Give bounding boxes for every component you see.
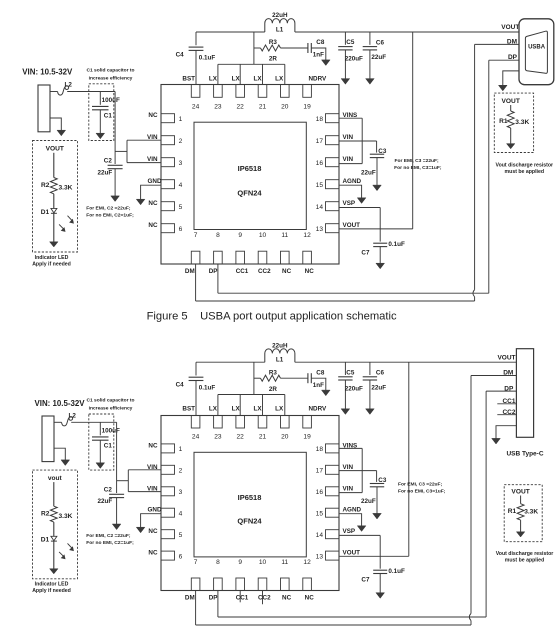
- svg-text:DM: DM: [503, 370, 513, 377]
- pin 19 box: [303, 85, 312, 98]
- capacitor C4: [195, 362, 197, 375]
- wire USB Type-C ground stub: [496, 426, 516, 439]
- svg-text:VIN: VIN: [343, 156, 354, 163]
- wire VIN pin 16: [339, 163, 362, 165]
- svg-text:16: 16: [316, 160, 324, 167]
- pin 13 box: [326, 224, 340, 233]
- svg-text:2R: 2R: [269, 56, 278, 63]
- svg-text:CC1: CC1: [236, 594, 249, 601]
- wire VOUT to R2: [53, 482, 55, 506]
- svg-text:2: 2: [179, 468, 183, 475]
- pin 1 box: [161, 114, 175, 123]
- svg-text:C6: C6: [376, 370, 385, 377]
- wire VOUT to R1: [510, 105, 512, 111]
- svg-text:C3: C3: [378, 148, 387, 155]
- svg-text:DP: DP: [209, 268, 218, 275]
- svg-text:C7: C7: [361, 250, 370, 257]
- svg-text:NC: NC: [148, 528, 158, 535]
- ground C2: [111, 196, 120, 202]
- svg-text:22uH: 22uH: [272, 12, 288, 19]
- wire J1 ground stub: [50, 118, 61, 131]
- LED D1: [51, 536, 57, 540]
- wire R1 to arrow: [510, 128, 512, 144]
- svg-text:3: 3: [179, 489, 183, 496]
- svg-text:C1: C1: [104, 112, 113, 119]
- svg-text:NC: NC: [148, 550, 158, 557]
- wire LX pin 23 drop: [217, 395, 219, 416]
- ground AGND: [357, 198, 366, 204]
- svg-text:R1: R1: [508, 508, 517, 515]
- pin 23 box: [214, 416, 223, 429]
- svg-text:AGND: AGND: [343, 178, 362, 185]
- wire VIN from J1 to L2: [54, 421, 62, 423]
- connector USB Type-C shell: [516, 349, 533, 438]
- resistor R3: [254, 47, 261, 49]
- svg-text:NDRV: NDRV: [309, 406, 328, 413]
- svg-text:13: 13: [316, 226, 324, 233]
- wire CC1 pin 9 stub: [239, 591, 241, 603]
- LED arrow 1: [68, 216, 74, 222]
- wire VIN bracket vertical: [126, 140, 128, 162]
- wire USBA ground stub: [503, 71, 519, 86]
- ground J1: [61, 460, 70, 466]
- svg-text:increase efficiency: increase efficiency: [89, 75, 133, 81]
- svg-text:L2: L2: [65, 81, 73, 88]
- pin 21 box: [258, 85, 267, 98]
- svg-text:VIN: VIN: [147, 485, 158, 492]
- svg-text:AGND: AGND: [343, 507, 362, 514]
- svg-text:BST: BST: [182, 75, 195, 82]
- pin 18 box: [326, 114, 340, 123]
- pin 23 box: [214, 85, 223, 98]
- svg-text:Indicator LED: Indicator LED: [35, 255, 69, 261]
- svg-text:C2: C2: [104, 486, 113, 493]
- svg-text:18: 18: [316, 446, 324, 453]
- svg-text:R1: R1: [499, 118, 508, 125]
- pin 3 box: [161, 487, 175, 496]
- svg-text:NC: NC: [148, 112, 158, 119]
- connector J1 input: [38, 85, 50, 132]
- dashed box C1: [89, 84, 114, 141]
- svg-text:must be applied: must be applied: [505, 558, 545, 564]
- capacitor C2: [109, 493, 124, 495]
- svg-text:9: 9: [238, 559, 242, 566]
- svg-text:8: 8: [216, 559, 220, 566]
- wire VOUT rail drop: [412, 32, 414, 229]
- wire DM horizontal: [196, 624, 471, 626]
- wire DP horizontal: [218, 292, 489, 294]
- capacitor C3: [370, 483, 384, 485]
- svg-text:23: 23: [214, 103, 222, 110]
- pin 22 box: [236, 416, 245, 429]
- pin 2 box: [161, 136, 175, 145]
- pin 20 box: [281, 416, 290, 429]
- wire to pin 3 VIN: [127, 162, 161, 164]
- capacitor C6: [369, 32, 371, 45]
- wire VINS bracket: [361, 118, 363, 163]
- wire D1 to ground: [53, 213, 55, 242]
- svg-text:VOUT: VOUT: [46, 146, 64, 153]
- wire AGND pin 15: [339, 514, 362, 527]
- wire VOUT rail drop: [408, 362, 410, 556]
- svg-text:D1: D1: [41, 209, 50, 216]
- svg-text:2R: 2R: [269, 386, 278, 393]
- wire DP horizontal: [218, 616, 486, 618]
- wire LX pin 20 drop: [284, 395, 286, 416]
- svg-text:NC: NC: [305, 268, 315, 275]
- svg-text:22uF: 22uF: [371, 384, 386, 391]
- svg-text:13: 13: [316, 553, 324, 560]
- ground C6: [366, 409, 375, 415]
- wire DP to USBA: [489, 59, 519, 61]
- svg-text:12: 12: [303, 232, 311, 239]
- svg-text:For EMI, C3 =22uF;: For EMI, C3 =22uF;: [398, 481, 443, 487]
- svg-text:22uH: 22uH: [272, 342, 288, 349]
- wire VINS pin 18: [339, 117, 362, 119]
- svg-text:7: 7: [194, 232, 198, 239]
- svg-text:CC1: CC1: [236, 268, 249, 275]
- capacitor C5: [344, 362, 346, 375]
- pin 2 box: [161, 465, 175, 474]
- wire R2 to D1: [53, 194, 55, 209]
- pin 11 box: [281, 578, 290, 591]
- svg-text:100uF: 100uF: [102, 97, 120, 104]
- svg-text:NC: NC: [148, 200, 158, 207]
- svg-text:L1: L1: [276, 357, 284, 364]
- svg-text:increase efficiency: increase efficiency: [89, 406, 133, 412]
- svg-text:LX: LX: [253, 406, 262, 413]
- svg-text:9: 9: [238, 232, 242, 239]
- svg-text:Vout discharge resistor: Vout discharge resistor: [496, 551, 554, 557]
- wire DM horizontal: [196, 300, 475, 302]
- svg-text:R2: R2: [41, 182, 50, 189]
- dashed box indicator LED: [33, 141, 78, 253]
- svg-text:22uF: 22uF: [98, 498, 113, 505]
- pin 13 box: [326, 551, 340, 560]
- capacitor C1: [99, 92, 101, 105]
- wire CC2 pin 10 stub: [262, 591, 264, 605]
- wire VOUT to R1: [520, 496, 522, 504]
- svg-text:C4: C4: [176, 51, 185, 58]
- capacitor C1: [99, 422, 101, 435]
- resistor R2: [50, 178, 57, 194]
- wire VSP pin 14: [339, 207, 380, 209]
- svg-text:vout: vout: [48, 475, 63, 482]
- wire VIN to C3: [376, 471, 378, 482]
- capacitor C2: [108, 164, 123, 166]
- ground USBA: [499, 85, 508, 91]
- resistor R3: [254, 377, 261, 379]
- wire DM to USB Type-C: [471, 375, 516, 377]
- ground USB Type-C: [492, 438, 501, 444]
- svg-text:NC: NC: [148, 442, 158, 449]
- svg-text:1: 1: [179, 116, 183, 123]
- wire R3 to C8: [281, 377, 308, 379]
- svg-text:18: 18: [316, 116, 324, 123]
- svg-text:NC: NC: [282, 594, 292, 601]
- wire VOUT rail: [295, 31, 519, 33]
- capacitor C5: [344, 32, 346, 45]
- wire DP to USB Type-C: [486, 390, 516, 392]
- IC U1 inner body: [194, 452, 306, 557]
- svg-text:C5: C5: [346, 39, 355, 46]
- svg-text:LX: LX: [253, 75, 262, 82]
- inductor L1: [265, 349, 295, 362]
- svg-text:VSP: VSP: [343, 200, 356, 207]
- wire VINS pin 18: [339, 447, 362, 449]
- svg-text:22uF: 22uF: [371, 54, 386, 61]
- svg-text:QFN24: QFN24: [237, 517, 262, 526]
- svg-text:14: 14: [316, 532, 324, 539]
- svg-text:16: 16: [316, 489, 324, 496]
- pin 1 box: [161, 444, 175, 453]
- pin 24 box: [191, 416, 200, 429]
- svg-text:22uF: 22uF: [98, 169, 113, 176]
- svg-text:1: 1: [179, 446, 183, 453]
- wire LX bus: [218, 63, 285, 65]
- wire DP pin 8 drop: [217, 591, 219, 618]
- ground C7: [376, 593, 385, 599]
- svg-text:1nF: 1nF: [313, 52, 324, 59]
- inductor L2: [62, 417, 73, 426]
- svg-text:22: 22: [237, 434, 245, 441]
- svg-text:VIN: VIN: [343, 464, 354, 471]
- pin 10 box: [258, 578, 267, 591]
- svg-text:DM: DM: [507, 38, 517, 45]
- svg-text:C1 solid capacitor to: C1 solid capacitor to: [86, 398, 134, 404]
- wire C8 to ground: [312, 378, 326, 390]
- svg-text:220uF: 220uF: [345, 55, 363, 62]
- svg-text:8: 8: [216, 232, 220, 239]
- svg-text:VSP: VSP: [343, 528, 356, 535]
- dashed box R1 discharge: [494, 93, 533, 152]
- capacitor C3: [370, 153, 384, 155]
- svg-text:C3: C3: [378, 477, 387, 484]
- wire VOUT to R2: [53, 153, 55, 178]
- pin 4 box: [161, 180, 175, 189]
- wire GND pin 4: [141, 185, 161, 199]
- svg-text:USBA: USBA: [528, 45, 546, 51]
- connector USBA shell: [519, 19, 554, 85]
- wire LX to R3: [253, 362, 255, 394]
- svg-text:C7: C7: [361, 576, 370, 583]
- wire VIN node vertical: [114, 92, 116, 165]
- arrow R1 return: [516, 532, 524, 537]
- svg-text:For no EMI, C3=1uF;: For no EMI, C3=1uF;: [398, 489, 446, 495]
- wire LX rail left: [196, 361, 265, 363]
- svg-text:NC: NC: [282, 268, 292, 275]
- pin 16 box: [326, 487, 340, 496]
- wire R1 to arrow: [520, 520, 522, 532]
- resistor R1: [507, 111, 514, 128]
- svg-text:LX: LX: [232, 406, 241, 413]
- svg-text:19: 19: [303, 103, 311, 110]
- ground C1: [96, 133, 105, 139]
- ground GND pin 4: [136, 199, 145, 205]
- svg-text:100uF: 100uF: [102, 427, 120, 434]
- pin 20 box: [281, 85, 290, 98]
- IC U1 IP6518 outline: [161, 85, 339, 265]
- pin 12 box: [303, 251, 312, 264]
- svg-text:Indicator LED: Indicator LED: [35, 581, 69, 587]
- wire VSP to C7: [379, 535, 381, 568]
- svg-text:Apply if needed: Apply if needed: [32, 262, 71, 268]
- svg-text:C5: C5: [346, 369, 355, 376]
- svg-text:5: 5: [179, 204, 183, 211]
- svg-text:3.3K: 3.3K: [524, 509, 538, 516]
- wire stub to VIN pins: [117, 480, 129, 482]
- pin 17 box: [326, 465, 340, 474]
- svg-text:IP6518: IP6518: [238, 493, 262, 502]
- pin 14 box: [326, 202, 340, 211]
- ground C1: [96, 463, 105, 469]
- ground C3: [373, 185, 382, 191]
- wire J1 ground stub: [54, 448, 65, 460]
- wire VOUT rail: [295, 361, 517, 363]
- svg-text:12: 12: [303, 559, 311, 566]
- svg-text:1nF: 1nF: [313, 382, 324, 389]
- svg-text:11: 11: [281, 559, 288, 566]
- ground C8: [322, 390, 331, 396]
- wire CC2 stub: [497, 414, 516, 416]
- svg-text:DP: DP: [209, 594, 218, 601]
- pin 15 box: [326, 508, 340, 517]
- dashed box R1 discharge: [504, 485, 542, 542]
- svg-text:For no EMI, C3=1uF;: For no EMI, C3=1uF;: [394, 165, 442, 171]
- schematic 1 USBA port output: [22, 12, 554, 301]
- ground C3: [373, 513, 382, 519]
- pin 14 box: [326, 530, 340, 539]
- resistor R2: [50, 506, 57, 522]
- wire VIN pin 17: [339, 140, 377, 142]
- capacitor C7: [373, 242, 387, 244]
- wire GND pin 4: [141, 514, 161, 528]
- pin 9 box: [236, 578, 245, 591]
- svg-text:6: 6: [179, 226, 183, 233]
- svg-text:LX: LX: [209, 406, 218, 413]
- wire LX pin 21 drop: [262, 64, 264, 84]
- dashed box C1: [89, 414, 114, 470]
- IC U1 IP6518 outline: [161, 416, 339, 591]
- wire LX pin 22 drop: [239, 395, 241, 416]
- svg-text:Apply if needed: Apply if needed: [32, 588, 71, 594]
- wire DP pin 8 drop: [217, 264, 219, 293]
- svg-text:VOUT: VOUT: [343, 222, 361, 229]
- pin 11 box: [281, 251, 290, 264]
- svg-text:For EMI, C2 =22uF;: For EMI, C2 =22uF;: [86, 205, 131, 211]
- svg-text:VOUT: VOUT: [511, 488, 529, 495]
- svg-text:15: 15: [316, 510, 324, 517]
- ground C2: [112, 524, 121, 530]
- ground C5: [341, 409, 350, 415]
- dashed box indicator LED: [33, 470, 78, 579]
- svg-text:VIN: VIN: [147, 134, 158, 141]
- ground C8: [322, 60, 331, 66]
- svg-text:CC2: CC2: [258, 594, 271, 601]
- wire LX to R3: [253, 32, 255, 64]
- ground GND pin 4: [136, 527, 145, 533]
- wire DM pin 7 drop: [195, 264, 197, 301]
- svg-text:3.3K: 3.3K: [59, 513, 73, 520]
- svg-text:L2: L2: [69, 412, 77, 419]
- wire LX pin 20 drop: [284, 64, 286, 84]
- wire D1 to ground: [53, 541, 55, 569]
- capacitor C7: [373, 569, 387, 571]
- wire L2 to node VIN: [67, 91, 115, 93]
- svg-text:VIN: 10.5-32V: VIN: 10.5-32V: [22, 67, 73, 76]
- ground AGND: [357, 526, 366, 532]
- pin 17 box: [326, 136, 340, 145]
- svg-text:must be applied: must be applied: [505, 169, 545, 175]
- svg-text:3.3K: 3.3K: [59, 185, 73, 192]
- wire C8 to ground: [312, 48, 326, 60]
- pin 22 box: [236, 85, 245, 98]
- svg-text:19: 19: [303, 434, 311, 441]
- svg-text:DP: DP: [504, 385, 514, 392]
- svg-text:0.1uF: 0.1uF: [388, 241, 405, 248]
- pin 21 box: [258, 416, 267, 429]
- schematic 2 USB Type-C port output: [32, 342, 553, 625]
- ground C5: [341, 79, 350, 85]
- arrow indicator return: [50, 242, 58, 247]
- svg-text:C1 solid capacitor to: C1 solid capacitor to: [86, 68, 134, 74]
- wire VSP to C7: [379, 208, 381, 242]
- svg-text:C1: C1: [104, 443, 113, 450]
- svg-text:6: 6: [179, 553, 183, 560]
- svg-text:20: 20: [281, 103, 289, 110]
- svg-text:C2: C2: [104, 157, 113, 164]
- wire DM pin 7 drop: [195, 591, 197, 626]
- svg-text:GND: GND: [148, 178, 162, 185]
- pin 15 box: [326, 180, 340, 189]
- svg-text:C6: C6: [376, 40, 385, 47]
- svg-text:NC: NC: [305, 594, 315, 601]
- svg-text:24: 24: [192, 103, 200, 110]
- svg-text:2: 2: [179, 138, 183, 145]
- svg-text:20: 20: [281, 434, 289, 441]
- svg-text:17: 17: [316, 138, 324, 145]
- capacitor C8: [307, 43, 309, 53]
- pin 19 box: [303, 416, 312, 429]
- svg-text:R2: R2: [41, 510, 50, 517]
- svg-text:22uF: 22uF: [361, 169, 376, 176]
- wire VIN to C3: [376, 141, 378, 153]
- svg-text:Vout discharge resistor: Vout discharge resistor: [496, 162, 554, 168]
- svg-text:Figure 5 USBA port output a: Figure 5 USBA port output application sc…: [147, 310, 397, 322]
- svg-text:NC: NC: [148, 222, 158, 229]
- svg-text:DM: DM: [185, 594, 195, 601]
- pin 12 box: [303, 578, 312, 591]
- pin 16 box: [326, 158, 340, 167]
- wire to pin 2 VIN: [128, 469, 161, 471]
- svg-text:For no EMI, C2=1uF;: For no EMI, C2=1uF;: [86, 540, 134, 546]
- svg-text:R3: R3: [269, 39, 278, 46]
- svg-text:LX: LX: [275, 406, 284, 413]
- wire AGND pin 15: [339, 185, 362, 198]
- pin 9 box: [236, 251, 245, 264]
- svg-text:GND: GND: [148, 507, 162, 514]
- wire VIN pin 16: [339, 492, 362, 494]
- svg-text:VIN: VIN: [147, 464, 158, 471]
- capacitor C6: [369, 362, 371, 375]
- wire VIN pin 17: [339, 470, 377, 472]
- svg-text:C4: C4: [176, 382, 185, 389]
- wire DP vertical riser: [488, 60, 490, 293]
- svg-text:0.1uF: 0.1uF: [199, 385, 216, 392]
- svg-text:LX: LX: [275, 75, 284, 82]
- svg-text:For EMI, C2 =22uF;: For EMI, C2 =22uF;: [86, 533, 131, 539]
- wire R3 to C8: [281, 47, 308, 49]
